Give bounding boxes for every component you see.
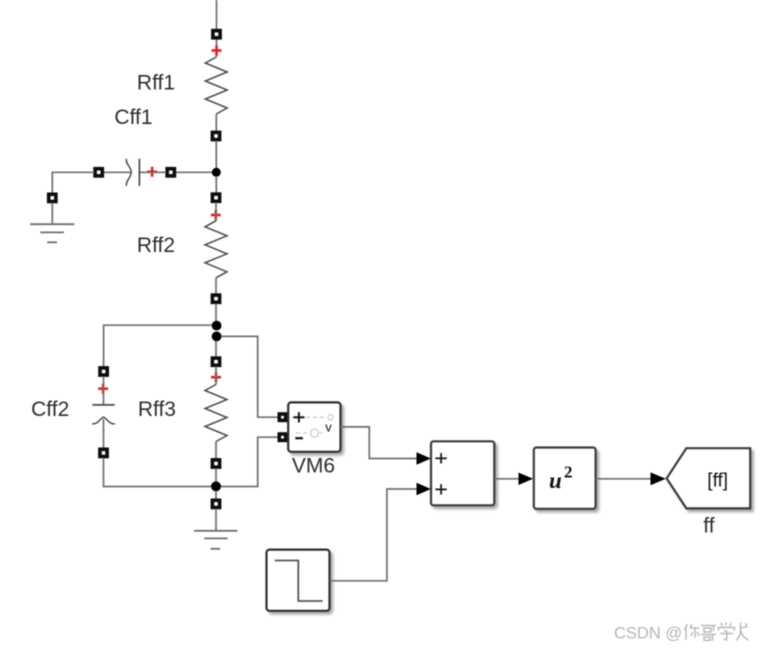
resistor R Rff3 (zigzag body) (205, 385, 227, 442)
watermark hanzi 你 (685, 624, 700, 640)
wire: Rff2 top stub (215, 202, 217, 220)
port: Rff2 bottom terminal (212, 295, 219, 302)
svg-text:Cff1: Cff1 (114, 106, 152, 129)
wire: Cff2 bottom stub (103, 419, 105, 448)
watermark hanzi 长 (737, 623, 749, 641)
polarity mark + (red) of Rff3 (211, 372, 221, 382)
wire: Rff3 top stub (215, 366, 217, 384)
svg-text:2: 2 (564, 463, 573, 482)
resistor R Rff1 (zigzag body) (205, 57, 227, 114)
polarity mark + (red) of Rff2 (211, 210, 221, 220)
wire: node A down to Rff2 top port (215, 176, 217, 193)
wire: u2 output to Goto block (596, 478, 651, 480)
port: Cff1 right terminal (167, 169, 174, 176)
port: ground G1 terminal (49, 194, 56, 201)
polarity mark + (red) of Cff1 (147, 167, 157, 177)
port: Rff1 bottom terminal (212, 132, 219, 139)
svg-text:CSDN @: CSDN @ (614, 625, 682, 643)
resistor R Rff2 (zigzag body) (205, 221, 227, 278)
wire: node C to VM6 - input (221, 437, 278, 486)
watermark hanzi 学 (719, 623, 735, 641)
arrowhead into sum input 1 (417, 452, 431, 464)
arrowhead into u2 block (519, 473, 534, 485)
watermark hanzi 哥 (701, 626, 716, 642)
wire: Rff1 bottom to node A (215, 141, 217, 170)
ground G1 symbol (30, 224, 74, 242)
port: Cff2 bottom terminal (100, 449, 107, 456)
arrowhead into Goto block (651, 472, 666, 485)
polarity mark + (red) of Rff1 (212, 46, 222, 56)
svg-text:VM6: VM6 (292, 455, 335, 478)
ground G2 symbol (194, 531, 237, 549)
wire: ground G2 stub (215, 509, 217, 531)
Goto block [ff] (pentagon) (667, 448, 751, 508)
wire: ground G1 stub (51, 203, 53, 224)
wire: Cff1 left plate to left port (104, 171, 131, 173)
svg-text:u: u (549, 468, 562, 493)
svg-text:v: v (325, 420, 332, 435)
port: Rff1 top terminal (213, 31, 220, 38)
port: Rff3 top terminal (212, 358, 219, 365)
wire: Cff2 bottom to node C (L-shape) (104, 458, 212, 487)
wire: Rff2 bottom stub (215, 278, 217, 294)
port: VM6 + input terminal (279, 414, 285, 420)
port: Rff3 bottom terminal (212, 460, 219, 467)
svg-text:Rff1: Rff1 (137, 72, 175, 95)
svg-text:Cff2: Cff2 (31, 398, 69, 421)
node B junction dot (lower) (212, 332, 222, 342)
voltage measurement block VM6 (288, 402, 340, 451)
wire: Rff1 bottom stub (215, 114, 217, 132)
capacitor C Cff1 (straight plate) (138, 159, 140, 186)
capacitor C Cff2 (curved plate) (92, 417, 115, 424)
svg-text:[ff]: [ff] (707, 471, 728, 492)
port: VM6 - input terminal (279, 434, 285, 440)
wire: node B left to Cff2 branch (104, 325, 212, 367)
step source block Step (267, 550, 330, 611)
wire: Cff1 right plate stub (139, 171, 166, 173)
wire: Cff2 top stub (103, 376, 105, 405)
port: ground G2 terminal (212, 500, 219, 507)
wire: VM6 output to sum block first input (341, 427, 417, 459)
wire: Rff3 bottom stub (215, 442, 217, 459)
svg-text:Rff2: Rff2 (137, 234, 175, 257)
wire: node B lower dot down to Rff3 top port (215, 341, 217, 357)
math function block u^2 (534, 448, 596, 509)
svg-text:Rff3: Rff3 (138, 398, 176, 421)
port: Cff1 left terminal (95, 169, 102, 176)
node B junction dot (upper) (212, 321, 222, 331)
wire: sum output to u2 block (494, 478, 519, 480)
wire: node C down to ground G2 port (215, 491, 217, 499)
port: Cff2 top terminal (100, 368, 107, 375)
arrowhead into sum input 2 (417, 483, 431, 495)
wire: node A left to Cff1 right port (176, 171, 212, 173)
wire: Rff2 bottom port to node B (215, 303, 217, 322)
wire: Rff1 top stub (216, 39, 218, 57)
wire: step output to sum block second input (330, 489, 417, 581)
capacitor C Cff2 (straight plate) (92, 404, 115, 406)
wire: node B lower dot to VM6 + input (221, 336, 278, 417)
node A junction dot (212, 168, 221, 177)
wire: top feed into Rff1 (216, 0, 218, 30)
port: Rff2 top terminal (212, 194, 219, 201)
capacitor C Cff1 (curved plate) (126, 159, 131, 186)
svg-text:ff: ff (703, 515, 714, 538)
wire: Rff3 bottom port to node C (215, 468, 217, 483)
node C junction dot (211, 481, 221, 491)
polarity mark + (red) of Cff2 (98, 384, 108, 394)
sum block U2 (Add) (431, 441, 494, 505)
wire: Cff1 left port to ground G1 (L-shape) (52, 172, 94, 193)
